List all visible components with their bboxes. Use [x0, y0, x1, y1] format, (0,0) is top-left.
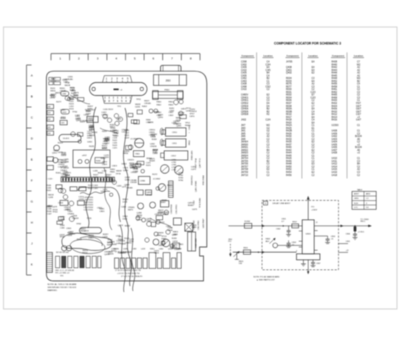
svg-text:J4705: J4705 — [286, 62, 293, 64]
wire trace right lower — [150, 218, 172, 228]
svg-text:27 14.8 750 200 OM AU70: 27 14.8 750 200 OM AU70 — [121, 275, 142, 278]
connector J403 — [47, 125, 54, 129]
transistor Q403 — [114, 114, 118, 118]
svg-text:Q409: Q409 — [102, 148, 108, 150]
svg-text:Q405 CR490: Q405 CR490 — [196, 181, 198, 192]
filled component box — [185, 223, 193, 231]
capacitor C400 box — [87, 116, 98, 122]
ferrite bead L802 — [354, 226, 356, 231]
svg-text:U441: U441 — [123, 219, 129, 221]
wire trace center — [100, 128, 118, 134]
diode CR800 box — [138, 176, 150, 184]
svg-text:U416: U416 — [332, 172, 338, 174]
svg-text:4.5 MHZ: 4.5 MHZ — [153, 179, 161, 181]
transistor Q402 — [107, 118, 111, 122]
fuse F800 body — [153, 92, 183, 99]
capacitor C811 box — [166, 139, 187, 147]
svg-text:R452: R452 — [332, 81, 338, 83]
svg-text:C842: C842 — [169, 110, 175, 112]
table data rows — [241, 62, 363, 177]
svg-text:W468: W468 — [88, 120, 94, 122]
capacitor C805 bottom — [311, 261, 315, 263]
output wire right — [314, 225, 371, 227]
svg-text:.01: .01 — [331, 239, 334, 241]
cap oval CE800 — [160, 128, 163, 135]
svg-text:ADJ: ADJ — [266, 240, 270, 243]
transistor Q807 — [154, 109, 158, 113]
svg-text:R453: R453 — [58, 142, 64, 144]
svg-text:4.5 MHZ: 4.5 MHZ — [131, 139, 139, 141]
svg-text:R426: R426 — [286, 158, 292, 160]
svg-text:CR465: CR465 — [126, 187, 133, 189]
svg-text:U404: U404 — [332, 142, 338, 144]
IC right pin capacitor C804 — [314, 235, 327, 237]
transistor Q405 — [115, 121, 119, 125]
svg-text:GND +5 -5 +12 GND A1: GND +5 -5 +12 GND A1 — [55, 269, 74, 272]
svg-text:B/22/4: B/22/4 — [355, 136, 362, 138]
svg-text:R408: R408 — [332, 62, 338, 64]
svg-text:U412: U412 — [332, 164, 338, 166]
cable route curve long — [86, 107, 96, 228]
svg-text:J40: J40 — [48, 107, 51, 109]
svg-text:R802: R802 — [292, 222, 296, 224]
svg-text:U407: U407 — [332, 150, 338, 152]
resistor R802 on wire — [292, 224, 299, 228]
pot arrow — [233, 251, 239, 256]
shield box Y400 region — [73, 150, 110, 168]
svg-text:R444: R444 — [286, 153, 292, 155]
svg-text:R404: R404 — [332, 106, 338, 108]
inductor L403 pill — [79, 227, 101, 233]
svg-text:F6/7: F6/7 — [356, 103, 361, 105]
svg-text:R400: R400 — [332, 100, 338, 102]
svg-text:Q444: Q444 — [168, 249, 173, 251]
svg-text:TP90: TP90 — [87, 135, 93, 137]
svg-text:R458: R458 — [332, 86, 338, 88]
svg-text:CR455: CR455 — [125, 243, 132, 245]
svg-text:R454: R454 — [286, 172, 292, 174]
junction dot lower — [258, 252, 259, 253]
svg-text:17 18 19 5.6WB 800 1.6WO 7W: 17 18 19 5.6WB 800 1.6WO 7W — [115, 270, 141, 272]
svg-text:C497: C497 — [70, 90, 76, 92]
svg-text:JM710: JM710 — [241, 175, 249, 177]
svg-text:R886 L406: R886 L406 — [192, 151, 194, 160]
svg-text:C6/7: C6/7 — [356, 114, 362, 116]
boundary crossing arrow left lower — [262, 251, 264, 253]
svg-text:C849 U499: C849 U499 — [196, 238, 198, 248]
svg-text:R484: R484 — [118, 253, 124, 255]
svg-text:JM604: JM604 — [241, 155, 249, 157]
svg-text:C801: C801 — [66, 228, 72, 230]
svg-text:R441: R441 — [124, 238, 130, 240]
stub wire right mid — [338, 243, 348, 245]
svg-text:J44: J44 — [48, 133, 51, 135]
transistor Q800 — [161, 165, 170, 174]
svg-text:R430: R430 — [286, 136, 292, 138]
mount hole left — [92, 87, 95, 90]
svg-text:C801: C801 — [178, 244, 184, 246]
wire trace top left — [70, 95, 90, 104]
svg-text:DL401: DL401 — [63, 138, 70, 140]
svg-text:C416 R419: C416 R419 — [103, 109, 114, 111]
svg-text:C463: C463 — [241, 81, 247, 83]
svg-text:W457: W457 — [110, 127, 116, 129]
jumper W401 — [54, 82, 60, 85]
svg-text:R468: R468 — [332, 97, 338, 99]
trimmer R803 arrow — [269, 238, 275, 243]
svg-text:C480V: C480V — [241, 95, 249, 97]
svg-text:R004: R004 — [286, 78, 292, 80]
svg-text:R441: R441 — [47, 190, 52, 192]
schematic tag box 3 — [263, 201, 267, 205]
svg-text:K: K — [31, 263, 33, 267]
svg-text:L484: L484 — [159, 249, 163, 251]
svg-text:R417: R417 — [286, 117, 292, 119]
svg-text:U461: U461 — [87, 141, 93, 143]
svg-text:CR80: CR80 — [140, 181, 146, 183]
transistor Q404 — [118, 117, 122, 121]
svg-text:C820: C820 — [97, 208, 103, 210]
svg-text:W428: W428 — [149, 161, 155, 163]
svg-text:U411: U411 — [332, 161, 338, 163]
board key slot — [188, 232, 196, 251]
svg-text:TP2 +12 GND -12: TP2 +12 GND -12 — [55, 273, 69, 275]
small box row 2 — [60, 200, 68, 205]
capacitor C801 to ground — [288, 226, 290, 231]
svg-text:C439: C439 — [191, 227, 197, 229]
svg-text:C479: C479 — [191, 169, 197, 171]
svg-text:TP3: TP3 — [60, 275, 63, 277]
svg-text:JM1: JM1 — [241, 131, 246, 133]
capacitor C471 box — [137, 190, 143, 195]
svg-text:Q483: Q483 — [124, 184, 130, 186]
svg-text:R002: R002 — [286, 95, 292, 97]
extra small circles bottom right — [136, 216, 174, 248]
svg-text:U401: U401 — [154, 253, 160, 255]
capacitor C803 with ground — [288, 240, 290, 243]
svg-text:Q469: Q469 — [76, 120, 82, 122]
svg-text:TP82: TP82 — [76, 224, 82, 226]
svg-text:R425: R425 — [286, 128, 292, 130]
svg-text:C785: C785 — [172, 170, 177, 172]
svg-text:U403: U403 — [332, 139, 338, 141]
svg-text:R891 R464: R891 R464 — [203, 175, 205, 185]
svg-text:CR418: CR418 — [130, 182, 137, 184]
svg-text:R426: R426 — [286, 133, 292, 135]
svg-text:TP78: TP78 — [116, 173, 122, 175]
svg-text:R405: R405 — [74, 95, 80, 97]
pot R805 branch — [236, 252, 238, 259]
svg-text:E: E — [31, 158, 33, 162]
svg-text:DELAY LINE ASSY: DELAY LINE ASSY — [273, 202, 291, 205]
capacitor C8x box — [173, 243, 180, 249]
svg-text:R495: R495 — [93, 177, 99, 179]
svg-text:C829: C829 — [104, 157, 110, 159]
svg-text:C876: C876 — [50, 97, 56, 99]
svg-text:▲ SEE PARTS LIST: ▲ SEE PARTS LIST — [256, 278, 275, 281]
table column separator lines — [256, 52, 258, 178]
svg-text:C806: C806 — [346, 233, 350, 235]
svg-text:C807: C807 — [316, 263, 320, 265]
svg-text:CR440: CR440 — [68, 234, 75, 236]
connector J401 — [47, 111, 54, 115]
svg-text:CR446: CR446 — [144, 103, 151, 105]
svg-text:JM6: JM6 — [241, 136, 246, 138]
svg-text:W1 W2 W3 W4: W1 W2 W3 W4 — [56, 252, 69, 254]
transistor Q804 circle — [273, 243, 278, 248]
svg-text:U414: U414 — [61, 155, 67, 157]
scattered component labels texture — [46, 77, 198, 256]
svg-text:U462: U462 — [88, 237, 94, 239]
svg-text:R440: R440 — [286, 147, 292, 149]
transistor Q807b — [162, 239, 170, 247]
connector J400 — [47, 104, 54, 108]
svg-text:C805: C805 — [346, 241, 350, 243]
svg-text:R450: R450 — [286, 166, 292, 168]
svg-text:C421: C421 — [113, 148, 118, 150]
svg-text:R456: R456 — [332, 84, 338, 86]
svg-text:R006: R006 — [286, 100, 292, 102]
svg-text:Q469: Q469 — [79, 199, 85, 201]
svg-text:R448: R448 — [332, 78, 338, 80]
svg-text:R477: R477 — [56, 101, 62, 103]
svg-text:C812: C812 — [171, 155, 177, 157]
vertical grid ruler A-K — [27, 65, 34, 275]
svg-text:W453: W453 — [61, 162, 67, 164]
svg-text:CR414: CR414 — [190, 111, 197, 113]
svg-text:R437: R437 — [286, 144, 292, 146]
svg-text:L419: L419 — [141, 249, 145, 251]
svg-text:CR436: CR436 — [150, 146, 157, 148]
svg-text:Component: Component — [332, 55, 344, 58]
svg-text:U410: U410 — [62, 79, 68, 81]
svg-text:C4/5: C4/5 — [266, 70, 272, 72]
svg-text:U1500: U1500 — [332, 125, 340, 127]
top pin fan of DL800 — [103, 76, 133, 83]
svg-text:R462: R462 — [153, 152, 159, 154]
svg-text:R484: R484 — [114, 133, 120, 135]
svg-text:R850: R850 — [189, 140, 191, 145]
svg-text:8: 8 — [190, 56, 192, 60]
svg-text:Q402: Q402 — [286, 73, 292, 75]
capacitor C806 to ground — [354, 231, 356, 234]
transistor Q411 — [66, 246, 71, 251]
svg-text:Location: Location — [354, 55, 364, 58]
svg-text:R004: R004 — [286, 97, 292, 99]
svg-text:W442: W442 — [125, 226, 131, 228]
svg-text:C409: C409 — [113, 136, 119, 138]
mount hole right — [140, 87, 143, 90]
inductor L400 pill — [61, 91, 69, 95]
boundary crossing arrows — [341, 225, 343, 227]
svg-text:W486: W486 — [114, 249, 119, 251]
svg-text:J402: J402 — [241, 120, 247, 122]
svg-text:Q495: Q495 — [176, 126, 182, 128]
ground for C801 — [286, 233, 291, 235]
svg-text:C455 R455: C455 R455 — [84, 209, 94, 211]
regulator U810 box — [160, 201, 168, 207]
svg-text:G4/7: G4/7 — [356, 120, 362, 122]
svg-text:2: 2 — [78, 56, 80, 60]
svg-text:TP31: TP31 — [87, 218, 93, 220]
svg-text:LOC: LOC — [354, 207, 358, 209]
IC bottom pin grounds — [302, 260, 304, 264]
svg-text:Q492: Q492 — [116, 119, 122, 121]
svg-text:R462: R462 — [332, 92, 338, 94]
svg-text:Q433: Q433 — [104, 254, 110, 256]
svg-text:C802: C802 — [129, 166, 135, 168]
transistor Q406 — [53, 158, 58, 163]
svg-text:R001: R001 — [286, 92, 292, 94]
svg-text:NOTE: AL 74/S.U 74LS8 ARE: NOTE: AL 74/S.U 74LS8 ARE — [48, 283, 78, 286]
inductor L401 pill — [61, 109, 69, 114]
svg-text:R852: R852 — [48, 205, 54, 207]
svg-text:R459: R459 — [152, 139, 158, 141]
svg-text:R465: R465 — [332, 95, 338, 97]
svg-text:TP11: TP11 — [136, 99, 142, 101]
svg-text:GRID: GRID — [354, 198, 359, 200]
svg-text:C462: C462 — [241, 78, 247, 80]
svg-text:R42A: R42A — [286, 124, 292, 127]
svg-text:U801: U801 — [306, 234, 312, 236]
transistor Q805 — [158, 184, 166, 192]
capacitor C472 box — [145, 190, 151, 195]
svg-text:R010: R010 — [286, 114, 292, 116]
svg-text:R808: R808 — [162, 200, 168, 202]
svg-text:C892: C892 — [132, 249, 136, 251]
svg-text:C408: C408 — [241, 84, 247, 86]
squiggle wire L410 — [80, 191, 110, 194]
svg-text:R075: R075 — [286, 84, 292, 86]
svg-text:C876: C876 — [150, 136, 156, 138]
svg-text:Q408: Q408 — [286, 67, 292, 69]
svg-text:R414: R414 — [332, 117, 338, 119]
svg-text:R430: R430 — [96, 161, 101, 163]
svg-text:+1.8 24 2 70 200 12000 750: +1.8 24 2 70 200 12000 750 — [117, 273, 140, 275]
svg-text:CR439: CR439 — [72, 218, 79, 220]
label DL800 — [114, 89, 119, 91]
svg-text:C861 R861: C861 R861 — [198, 220, 200, 230]
svg-text:R424: R424 — [83, 253, 89, 255]
schematic legend table — [352, 191, 376, 209]
svg-text:U479: U479 — [52, 207, 58, 209]
inductor DL input bump — [244, 223, 251, 228]
svg-text:C2: C2 — [366, 198, 368, 200]
svg-text:R808 R812: R808 R812 — [192, 175, 194, 185]
svg-text:Q422: Q422 — [101, 191, 107, 193]
svg-text:u: u — [126, 83, 127, 85]
cable loop C — [80, 237, 102, 246]
cable bend region outline — [78, 187, 121, 222]
svg-text:C831 R831: C831 R831 — [176, 204, 178, 214]
svg-text:R402: R402 — [332, 103, 338, 105]
svg-text:R007: R007 — [286, 103, 292, 105]
svg-text:JM705: JM705 — [241, 161, 249, 163]
svg-text:R435: R435 — [286, 142, 292, 144]
svg-text:U410: U410 — [332, 158, 338, 160]
connector J800 body — [154, 75, 187, 86]
connector J402 — [47, 117, 54, 121]
svg-text:JM603: JM603 — [241, 153, 249, 155]
horizontal grid ruler 1-8 — [51, 54, 200, 61]
svg-text:R472: R472 — [160, 222, 166, 224]
svg-text:Q469: Q469 — [172, 235, 178, 237]
svg-text:R461: R461 — [332, 89, 338, 91]
svg-text:.01: .01 — [292, 244, 295, 246]
svg-text:D4: D4 — [366, 207, 368, 209]
svg-text:+130V: +130V — [311, 210, 318, 212]
svg-text:R810: R810 — [150, 249, 154, 251]
cable curve small — [104, 168, 112, 230]
svg-text:ASSY: ASSY — [354, 193, 360, 196]
svg-text:W442: W442 — [80, 231, 86, 233]
resistor pack comb bar — [61, 177, 115, 182]
svg-text:COMPONENT LOCATOR FOR SCHEMATI: COMPONENT LOCATOR FOR SCHEMATIC 3 — [274, 41, 341, 45]
svg-text:CR502: CR502 — [241, 103, 249, 105]
transistor Q412 — [58, 188, 63, 193]
svg-text:U409: U409 — [332, 133, 338, 135]
svg-text:C883: C883 — [177, 249, 181, 251]
svg-text:JM602: JM602 — [241, 150, 249, 152]
svg-text:CR506: CR506 — [241, 111, 249, 113]
svg-text:C447: C447 — [47, 214, 52, 216]
transistor Q410 — [62, 246, 67, 251]
svg-text:H: H — [31, 221, 33, 225]
svg-text:C802: C802 — [276, 229, 280, 231]
svg-text:J42: J42 — [48, 119, 51, 121]
svg-text:MARKED.: MARKED. — [48, 289, 58, 292]
svg-text:W401: W401 — [98, 173, 104, 175]
svg-text:CR415: CR415 — [127, 160, 134, 162]
delay line DL401 pill — [59, 134, 81, 141]
svg-text:TP36: TP36 — [133, 169, 139, 171]
svg-text:CR406: CR406 — [241, 109, 249, 111]
svg-text:R416: R416 — [332, 120, 338, 122]
bottom pad row A — [56, 256, 60, 268]
svg-text:CR407: CR407 — [60, 170, 67, 172]
svg-text:R435: R435 — [89, 146, 95, 148]
svg-text:R841: R841 — [110, 172, 116, 174]
svg-text:R407: R407 — [110, 131, 116, 133]
svg-text:C841: C841 — [166, 226, 172, 228]
junction dot input — [283, 225, 284, 226]
svg-text:R897: R897 — [161, 202, 167, 204]
connector J406 — [47, 165, 53, 169]
svg-text:U415: U415 — [332, 169, 338, 171]
svg-text:R497: R497 — [102, 131, 108, 133]
svg-text:R42B: R42B — [286, 131, 292, 133]
svg-text:CR504: CR504 — [241, 106, 249, 108]
svg-text:C805: C805 — [99, 211, 105, 213]
svg-text:C898: C898 — [84, 115, 90, 117]
svg-text:U436: U436 — [123, 249, 127, 251]
svg-text:C460: C460 — [60, 228, 65, 230]
svg-text:C466: C466 — [121, 206, 127, 208]
svg-text:W434: W434 — [92, 132, 98, 134]
svg-text:JM5: JM5 — [241, 133, 246, 135]
svg-text:R412: R412 — [332, 114, 338, 116]
svg-text:Q490: Q490 — [158, 117, 164, 119]
svg-text:500: 500 — [239, 263, 242, 265]
+130V supply line — [307, 196, 309, 219]
svg-text:R445: R445 — [286, 155, 292, 157]
svg-text:C2/3: C2/3 — [311, 97, 317, 99]
svg-text:J800: J800 — [228, 239, 232, 241]
svg-text:4.7: 4.7 — [281, 221, 284, 223]
svg-text:Q401: Q401 — [286, 70, 292, 72]
cable loop B — [70, 239, 105, 253]
jumper W400 — [54, 77, 60, 80]
